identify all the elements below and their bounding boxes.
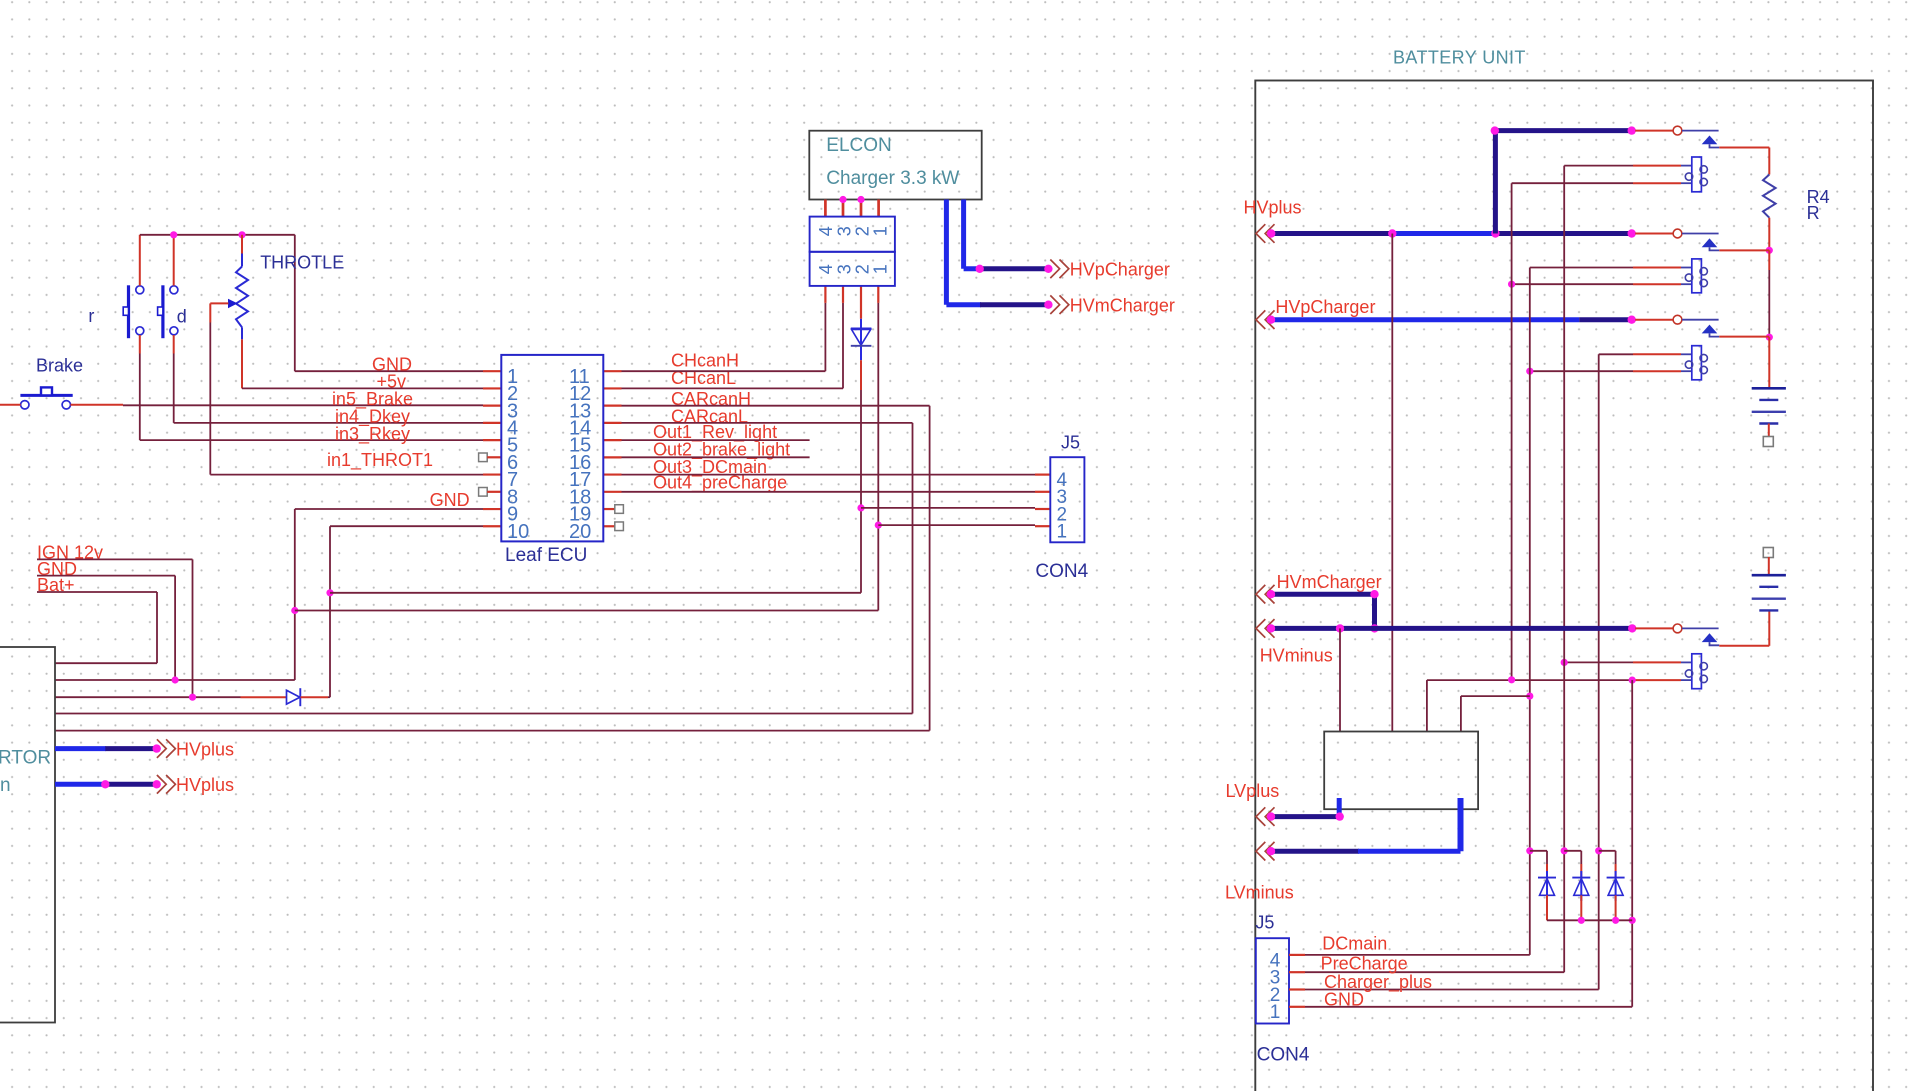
wire diode D3 down [1546, 851, 1548, 864]
junction loop corner [1491, 126, 1499, 134]
battery unit box [1255, 81, 1873, 1091]
junction precharge diode [1561, 847, 1568, 854]
junction HVplus2a [101, 780, 109, 788]
wire J5 pin1 h [878, 524, 1035, 526]
wire CHcanH h [622, 370, 826, 372]
svg-text:1: 1 [1057, 522, 1068, 543]
junction HVplus1 [153, 744, 161, 752]
wire coil1 upper red [1633, 165, 1681, 167]
wire HVpCharger navy [980, 266, 1048, 271]
wire dcdc pinC [1426, 680, 1428, 731]
wire diode bus [1547, 919, 1632, 921]
junction coil4 lower [1629, 677, 1636, 684]
no-connect pin 8 [479, 488, 488, 497]
svg-text:Brake: Brake [36, 356, 83, 376]
wire relay1 loop top [1495, 128, 1632, 133]
wire IGN 12v [37, 558, 193, 560]
svg-text:RTOR: RTOR [0, 748, 51, 769]
junction hvm join [1370, 624, 1378, 632]
svg-text:LVminus: LVminus [1225, 883, 1294, 903]
svg-text:1: 1 [870, 264, 890, 274]
wire Charger_plus [1305, 989, 1599, 991]
wire Out4 preCharge to J5 [622, 491, 1036, 493]
svg-text:20: 20 [569, 521, 591, 543]
battery BT1 [1752, 388, 1786, 423]
wire Bat+ h [37, 591, 157, 593]
wire rail corner down [294, 235, 296, 371]
wire in5_Brake [123, 404, 483, 406]
wire GND h [37, 575, 175, 577]
wire pin9 h [295, 508, 483, 510]
pin 10 stub [483, 525, 501, 527]
diode D4 [1572, 871, 1590, 901]
svg-text:in1_THROT1: in1_THROT1 [327, 450, 433, 471]
svg-text:ELCON: ELCON [826, 135, 891, 156]
junction rail-d [170, 231, 177, 238]
diode D2 [851, 319, 872, 360]
wire diode corner [328, 696, 330, 698]
wire coil2 lower red [1633, 283, 1681, 285]
junction HVplus2b [153, 780, 161, 788]
wire d to pin4 v [173, 354, 175, 423]
wire dcdc pinA [1339, 628, 1341, 731]
junction hvm port batt [1267, 590, 1275, 598]
wire HVmCharger navy batt [1271, 592, 1375, 597]
diode D1 [287, 688, 301, 706]
wire HVplus2 navy [105, 782, 156, 787]
pin 15 stub [603, 439, 621, 441]
wire diode D3 bottom lead [1546, 895, 1548, 920]
wire r4 down dark [1768, 270, 1770, 337]
wire battery1 bottom lead [1768, 424, 1770, 438]
junction HVplus dcdc [1388, 229, 1396, 237]
wire GND to pin1 [295, 370, 483, 372]
pin 17 stub [603, 473, 621, 475]
port HVplus batt [1256, 224, 1275, 243]
relay K3 coil [1681, 346, 1707, 380]
wire R4 top lead [1768, 148, 1770, 175]
svg-text:THROTLE: THROTLE [260, 253, 344, 273]
wire gnd rail [140, 234, 295, 236]
wire coil4 lower red [1632, 679, 1681, 681]
resistor R4 [1763, 175, 1776, 218]
junction hvminus port [1267, 624, 1275, 632]
connector J5 battery box [1256, 938, 1289, 1023]
junction rail-pot [238, 231, 245, 238]
wire diode D3 jog [1530, 850, 1547, 852]
junction elcon stub2 [839, 196, 846, 203]
IC U1 Leaf ECU box [501, 355, 603, 542]
svg-text:DCmain: DCmain [1322, 933, 1387, 953]
wire diode D4 bottom lead [1580, 895, 1582, 920]
svg-text:d: d [177, 307, 187, 327]
wire LVminus vert blue [1458, 798, 1464, 851]
junction coil3 lower [1526, 368, 1533, 375]
wire CARcanL vertical [912, 423, 914, 714]
wire LVminus blue [1358, 849, 1461, 854]
svg-text:GND: GND [1324, 989, 1364, 1009]
terminal battery2 [1763, 548, 1773, 558]
svg-text:HVminus: HVminus [1260, 645, 1333, 665]
wire HVmCharger vert [1372, 594, 1377, 628]
junction hvmcharger port [1044, 301, 1052, 309]
wire R4 bottom lead [1768, 218, 1770, 251]
wire d bottom lead [173, 335, 175, 354]
wire HVplus navy2 [1495, 231, 1631, 236]
no-connect pin 20 [615, 522, 624, 531]
wire Bat+ to inverter [55, 662, 157, 664]
wire wiper vertical [209, 323, 211, 475]
port HVpCharger batt [1256, 310, 1275, 329]
J5 stub y526.2 [1035, 525, 1050, 527]
relay K3 contact [1635, 315, 1719, 336]
port HVmCharger batt [1256, 585, 1275, 604]
wire LVminus navy [1271, 849, 1359, 854]
wire HVplus navy1 [1271, 231, 1392, 236]
junction J5 pin1 [875, 522, 882, 529]
junction battery1 top [1766, 334, 1773, 341]
svg-text:BATTERY UNIT: BATTERY UNIT [1393, 48, 1526, 68]
wire gnd to inverter [55, 679, 295, 681]
junction dcmain diode [1526, 847, 1533, 854]
relay K4 coil [1681, 654, 1707, 689]
svg-text:HVpCharger: HVpCharger [1070, 259, 1170, 279]
wire ELCON HV+ vertical [944, 200, 949, 305]
relay K1 contact [1635, 126, 1719, 147]
no-connect pin 19 [615, 505, 624, 514]
svg-text:LVplus: LVplus [1226, 781, 1280, 801]
junction hvp contact [1628, 316, 1636, 324]
potentiometer THROTLE [228, 254, 248, 340]
J5 batt stub 1 [1289, 1006, 1305, 1008]
wire r4 down red [1768, 250, 1770, 270]
pin 12 stub [603, 387, 621, 389]
port HVplus2 [157, 775, 176, 794]
junction elcon stub3 [857, 196, 864, 203]
wire CHcanL vertical [842, 303, 844, 389]
wire d top lead [173, 235, 175, 286]
wire Bat+ vertical [156, 592, 158, 663]
pin 3 stub [483, 405, 501, 407]
J5 stub y474.6 [1035, 474, 1050, 476]
port LVplus [1256, 807, 1275, 826]
pin 18 stub [603, 491, 621, 493]
connector block lower [810, 252, 895, 286]
junction hvminus contact [1628, 624, 1636, 632]
DC-DC converter box [1324, 732, 1478, 810]
connector block upper [810, 217, 895, 252]
junction bus d5 [1612, 917, 1619, 924]
junction HVplus contact [1628, 229, 1636, 237]
wire pot bottom lead red [241, 339, 243, 388]
wire r to pin5 v [139, 354, 141, 441]
wire coil3 lower red [1633, 370, 1681, 372]
switch r [123, 285, 144, 338]
ELCON pin stub x843 [842, 200, 845, 217]
wire coil1 lower [1512, 182, 1633, 184]
pin 6 stub [487, 456, 501, 458]
junction hvp port batt [1267, 316, 1275, 324]
wire CHcanH vertical [824, 303, 826, 371]
wire in4_Dkey [174, 422, 483, 424]
switch d [158, 285, 178, 338]
junction hvm corner [1370, 590, 1378, 598]
wire vertical precharge2 [1563, 166, 1565, 973]
wire coil1 lower red [1633, 182, 1681, 184]
port HVpCharger [1050, 260, 1069, 279]
wire HVplus blue [1392, 231, 1495, 236]
connector J5 box [1050, 457, 1084, 542]
wire vertical precharge1 [1511, 183, 1513, 680]
junction R4 relay2 [1766, 247, 1773, 254]
svg-text:n: n [0, 775, 11, 796]
wire LVplus navy [1271, 814, 1340, 819]
wire pin9 vertical [294, 509, 296, 680]
wire coil1 upper [1564, 165, 1633, 167]
ELCON pin stub x825.4 [824, 200, 827, 217]
wire PreCharge [1305, 971, 1564, 973]
svg-text:J5: J5 [1061, 432, 1080, 452]
wire dcdc pinD jog [1461, 695, 1530, 697]
pin 5 stub [483, 439, 501, 441]
wire coil2 lower [1512, 283, 1633, 285]
wire conn pin3 lead [842, 286, 844, 303]
wire HVplus1 navy [105, 746, 156, 751]
pin 16 stub [603, 456, 621, 458]
wire relay4 arm [1719, 645, 1769, 647]
wire diode D5 jog [1599, 850, 1616, 852]
svg-text:3: 3 [834, 264, 854, 274]
wire HVplus2 blue [55, 782, 106, 787]
wire DCmain [1305, 954, 1530, 956]
wire diode D5 top lead [1615, 864, 1617, 878]
ELCON pin stub x878.6 [877, 200, 880, 217]
diode D5 [1607, 871, 1625, 901]
pin 13 stub [603, 405, 621, 407]
wire pot wiper [210, 302, 228, 304]
port HVminus [1256, 619, 1275, 638]
IC INVERTOR box [0, 647, 55, 1023]
wire relay2 arm [1719, 249, 1769, 251]
wire HVmCharger navy [980, 302, 1048, 307]
wire diode2 lower lead [860, 360, 862, 390]
terminal battery1 [1763, 437, 1773, 447]
pin 7 stub [483, 473, 501, 475]
wire coil2 upper red [1633, 267, 1681, 269]
wire IGN vertical [192, 559, 194, 697]
wire GND batt [1305, 1006, 1632, 1008]
svg-text:HVmCharger: HVmCharger [1277, 572, 1382, 592]
wire HVpCharger navy batt [1579, 317, 1632, 322]
wire CHcanL h [622, 387, 844, 389]
wire coil4 upper red [1633, 661, 1681, 663]
wire diode D4 top lead [1580, 864, 1582, 878]
junction J5 pin2 [857, 504, 864, 511]
svg-text:10: 10 [507, 521, 529, 543]
wire conn pin1 vertical [877, 303, 879, 611]
svg-text:HVpCharger: HVpCharger [1275, 297, 1375, 317]
junction gnd diode bus [1629, 917, 1636, 924]
wire diode D3 top lead [1546, 864, 1548, 878]
wire relay3 arm [1719, 336, 1769, 338]
svg-text:HVmCharger: HVmCharger [1070, 295, 1175, 315]
J5 batt stub 2 [1289, 988, 1305, 990]
junction pin10 net [326, 589, 333, 596]
junction hvpcharger port [1044, 265, 1052, 273]
wire coil4 lower [1427, 679, 1632, 681]
wire HVplus1 blue [55, 746, 106, 751]
wire LVplus stub blue [1337, 798, 1342, 817]
wire vertical HVplus-dcdc [1391, 234, 1393, 732]
junction HVplus relay1 [1491, 229, 1499, 237]
svg-text:1: 1 [870, 226, 890, 236]
junction ign [189, 694, 196, 701]
wire diode anode lead [241, 696, 287, 698]
relay K2 coil [1681, 259, 1707, 293]
wire vertical gnd net [1631, 680, 1633, 1007]
wire diode cathode lead [301, 696, 329, 698]
pin 4 stub [483, 422, 501, 424]
wire relay1 loop vertical [1493, 131, 1498, 234]
junction chargerplus diode [1595, 847, 1602, 854]
wire coil2 upper [1530, 267, 1633, 269]
wire dcdc pinD [1460, 696, 1462, 731]
svg-text:GND: GND [430, 490, 470, 510]
wire inverter ign h [55, 696, 241, 698]
pin 2 stub [483, 387, 501, 389]
wire CARcanL to inverter [55, 713, 913, 715]
junction lvminus port [1267, 847, 1275, 855]
port LVminus [1256, 842, 1275, 861]
wire HVpCharger blue [964, 266, 981, 271]
wire +5v [242, 387, 483, 389]
svg-text:CON4: CON4 [1257, 1045, 1310, 1066]
junction hvminus dcdc [1336, 624, 1344, 632]
wire Out3 DCmain to J5 [622, 474, 1036, 476]
J5 batt stub 3 [1289, 971, 1305, 973]
relay K2 contact [1635, 229, 1719, 250]
svg-text:4: 4 [816, 226, 836, 236]
junction precharge end [1508, 676, 1515, 683]
wire pot top lead red [241, 235, 243, 254]
wire diode D4 jog [1564, 850, 1581, 852]
wire Out2_brake_light [622, 456, 810, 458]
wire r top lead [139, 235, 141, 286]
pin 8 stub [487, 491, 501, 493]
wire in1_THROT1 [210, 474, 483, 476]
svg-text:HVplus: HVplus [176, 739, 234, 759]
svg-text:3: 3 [834, 226, 854, 236]
junction pin9 net [291, 607, 298, 614]
J5 stub y491.8 [1035, 491, 1050, 493]
wire HVminus navy [1271, 626, 1632, 631]
pin 1 stub [483, 370, 501, 372]
svg-text:Out4_preCharge: Out4_preCharge [653, 472, 787, 493]
wire diode D5 down [1615, 851, 1617, 864]
wire diode D5 bottom lead [1615, 895, 1617, 920]
wire J5 pin2 h [861, 507, 1035, 509]
wire CARcanH vertical [929, 406, 931, 731]
junction coil4 upper [1561, 659, 1568, 666]
J5 batt stub 4 [1289, 954, 1305, 956]
wire in3_Rkey [140, 439, 483, 441]
no-connect pin 6 [479, 453, 488, 462]
wire CARcanH h [622, 405, 930, 407]
pin 9 stub [483, 508, 501, 510]
junction coil2 lower [1508, 281, 1515, 288]
wire ELCON HV- vertical [961, 200, 966, 269]
wire GND vertical [174, 576, 176, 680]
pin 19 stub [603, 508, 614, 510]
wire net y610 [295, 610, 879, 612]
svg-text:HVplus: HVplus [1244, 198, 1302, 218]
relay K4 contact [1635, 624, 1719, 645]
wire CARcanL h [622, 422, 913, 424]
svg-text:1: 1 [1270, 1002, 1281, 1023]
svg-text:HVplus: HVplus [176, 775, 234, 795]
wire coil3 lower [1530, 370, 1633, 372]
junction relay1 contact [1628, 126, 1636, 134]
ELCON charger box [809, 131, 981, 200]
junction gnd label [172, 676, 179, 683]
wire coil4 upper [1564, 661, 1633, 663]
wire vertical dcmain [1529, 268, 1531, 955]
svg-text:Charger 3.3 kW: Charger 3.3 kW [826, 168, 959, 189]
wire conn pin2 vertical [860, 390, 862, 593]
svg-text:CON4: CON4 [1035, 561, 1088, 582]
wire relay1 to R4 [1719, 147, 1769, 149]
svg-text:PreCharge: PreCharge [1321, 954, 1408, 974]
diode D3 [1538, 871, 1556, 901]
wire brake to pin lead [71, 404, 124, 406]
ELCON pin stub x861 [860, 200, 863, 217]
port HVmCharger [1050, 295, 1069, 314]
wire battery2 top lead [1768, 557, 1770, 575]
relay K1 coil [1681, 157, 1707, 192]
junction lvplus pin [1336, 812, 1344, 820]
junction hvpcharger blue end [976, 265, 984, 273]
pin 14 stub [603, 422, 621, 424]
svg-text:in3_Rkey: in3_Rkey [335, 424, 410, 445]
svg-text:Leaf ECU: Leaf ECU [505, 545, 587, 566]
wire pin10 h [330, 525, 483, 527]
wire conn pin2 lead top [860, 286, 862, 319]
wire brake left [0, 404, 21, 406]
wire pin10 vertical [329, 526, 331, 697]
junction lvplus port [1267, 812, 1275, 820]
wire HVpCharger blue batt [1271, 317, 1579, 322]
wire vertical chargerplus [1598, 354, 1600, 989]
wire CARcanH to inverter [55, 730, 930, 732]
wire conn pin4 lead [824, 286, 826, 303]
pin 11 stub [603, 370, 621, 372]
wire coil3 upper [1599, 353, 1633, 355]
junction dcmain dcdc [1526, 693, 1533, 700]
pushbutton switch Brake [20, 387, 72, 409]
svg-text:r: r [88, 306, 94, 326]
J5 stub y509.0 [1035, 508, 1050, 510]
pin 20 stub [603, 525, 614, 527]
wire Out1_Rev_light [622, 439, 810, 441]
wire battery1 top lead [1768, 337, 1770, 388]
junction HVplus port [1267, 229, 1275, 237]
wire r bottom lead [139, 335, 141, 354]
junction bus d4 [1578, 917, 1585, 924]
svg-text:R: R [1807, 203, 1820, 223]
port HVplus1 [157, 739, 176, 758]
svg-text:J5: J5 [1255, 913, 1274, 933]
svg-text:4: 4 [816, 264, 836, 274]
